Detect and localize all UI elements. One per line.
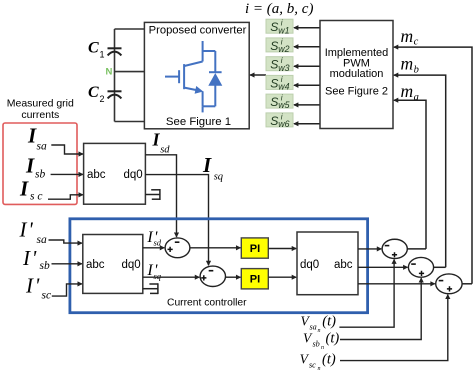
terminator symbol on U2 zero output bbox=[145, 189, 160, 200]
svg-text:m: m bbox=[401, 81, 414, 101]
transistor Q1 (IGBT, blue) bbox=[165, 41, 215, 112]
wire: m_b from sum B bbox=[394, 75, 446, 267]
svg-text:sq: sq bbox=[154, 271, 162, 281]
svg-text:sd: sd bbox=[154, 238, 162, 248]
svg-text:b: b bbox=[414, 64, 419, 75]
wire: PI1 to dq0/abc bbox=[268, 248, 296, 250]
wire: DC-link vertical bus bbox=[114, 29, 116, 122]
red box around measured currents bbox=[3, 123, 77, 204]
wire: I_sc to abc/dq0 bbox=[48, 195, 83, 199]
svg-text:sb: sb bbox=[313, 340, 320, 349]
svg-text:sc: sc bbox=[42, 290, 52, 302]
node Sw4 (switching signal S^i_w4) bbox=[266, 75, 293, 92]
svg-text:I: I bbox=[27, 124, 37, 148]
svg-text:sc: sc bbox=[309, 361, 316, 370]
svg-text:n: n bbox=[321, 345, 324, 351]
svg-text:N: N bbox=[106, 67, 113, 78]
svg-text:currents: currents bbox=[21, 109, 59, 121]
terminator symbol on U3 zero output bbox=[143, 283, 158, 294]
current controller box (blue) bbox=[70, 219, 368, 313]
diode D1 (freewheeling, blue) bbox=[209, 51, 222, 106]
svg-text:S: S bbox=[270, 58, 278, 72]
capacitor C2 bbox=[108, 91, 122, 98]
svg-text:S: S bbox=[270, 39, 278, 53]
wire: I'_sq to sum2 bbox=[143, 276, 199, 278]
wire: sumC output up to m_c bbox=[462, 283, 472, 285]
summing node sumA bbox=[382, 239, 407, 258]
wire: sumB output up to m_b bbox=[434, 266, 446, 268]
wire: V_sc to sumC bbox=[340, 295, 448, 361]
capacitor C1 bbox=[108, 48, 122, 55]
svg-text:See Figure 2: See Figure 2 bbox=[325, 85, 388, 97]
svg-text:abc: abc bbox=[87, 169, 106, 181]
node Sw6 (switching signal S^i_w6) bbox=[266, 112, 293, 129]
wire: gating bus into converter bbox=[250, 74, 266, 76]
svg-text:(t): (t) bbox=[322, 313, 336, 329]
node Sw1 (switching signal S^i_w1) bbox=[266, 19, 293, 36]
wire: PWM to Sw2 bbox=[294, 46, 320, 48]
wire: m_a from sum A bbox=[394, 100, 426, 249]
abc/dq0 block U3 (reference currents transform) bbox=[83, 235, 143, 294]
svg-text:i = (a, b, c): i = (a, b, c) bbox=[245, 1, 313, 17]
svg-text:sb: sb bbox=[35, 169, 45, 181]
svg-text:n: n bbox=[318, 366, 321, 372]
svg-text:C: C bbox=[88, 39, 99, 56]
wire: bottom DC rail to converter bbox=[115, 121, 145, 123]
svg-text:Current controller: Current controller bbox=[167, 297, 247, 308]
wire: I'_sa to abc/dq0 bbox=[49, 240, 82, 243]
PI controller PI2 bbox=[241, 269, 268, 289]
summing node sum1 (d-axis) bbox=[165, 238, 190, 258]
svg-text:I: I bbox=[152, 129, 161, 149]
wire: I'_sb to abc/dq0 bbox=[52, 263, 82, 265]
svg-text:w2: w2 bbox=[278, 44, 289, 54]
svg-text:sq: sq bbox=[214, 171, 223, 182]
svg-text:I: I bbox=[25, 153, 35, 177]
wire: neutral mid rail to converter bbox=[115, 71, 145, 73]
svg-text:I ': I ' bbox=[19, 218, 34, 242]
wire: I_sq to sum2 bbox=[145, 175, 208, 266]
svg-text:PI: PI bbox=[250, 274, 260, 286]
wire: I_sb to abc/dq0 bbox=[51, 173, 83, 175]
svg-text:PI: PI bbox=[250, 243, 260, 255]
wire: top DC rail to converter bbox=[115, 28, 145, 30]
svg-text:abc: abc bbox=[86, 259, 105, 271]
svg-text:sd: sd bbox=[160, 145, 170, 156]
wire: PWM to Sw4 bbox=[294, 84, 320, 86]
svg-text:See Figure 1: See Figure 1 bbox=[166, 116, 231, 128]
svg-text:sb: sb bbox=[40, 260, 50, 272]
node Sw5 (switching signal S^i_w5) bbox=[266, 94, 293, 111]
svg-text:1: 1 bbox=[100, 49, 105, 59]
svg-text:2: 2 bbox=[100, 94, 105, 104]
svg-text:s c: s c bbox=[30, 191, 42, 203]
svg-text:m: m bbox=[401, 53, 414, 73]
wire: PWM to Sw1 bbox=[294, 27, 320, 29]
summing node sumB bbox=[408, 257, 433, 277]
wire: U4 c-output to sum C bbox=[358, 283, 435, 285]
svg-text:w3: w3 bbox=[278, 63, 289, 73]
dq0/abc block U4 (inverse transform) bbox=[297, 232, 358, 295]
summing node sumC bbox=[436, 274, 462, 294]
svg-text:S: S bbox=[270, 114, 278, 128]
wire: U4 a-output to sum A bbox=[358, 248, 381, 250]
wire: PWM to Sw6 bbox=[294, 123, 320, 125]
summing node sum2 (q-axis) bbox=[200, 266, 225, 286]
svg-text:w4: w4 bbox=[278, 82, 289, 92]
svg-text:Measured grid: Measured grid bbox=[7, 98, 74, 110]
svg-text:S: S bbox=[270, 95, 278, 109]
svg-text:I: I bbox=[19, 177, 29, 201]
svg-text:(t): (t) bbox=[322, 351, 336, 367]
svg-text:I ': I ' bbox=[22, 246, 37, 270]
svg-text:I: I bbox=[202, 153, 212, 177]
emitter arrow of Q1 bbox=[184, 88, 201, 91]
wire: V_sb to sumB bbox=[340, 278, 421, 339]
svg-text:dq0: dq0 bbox=[300, 259, 319, 271]
svg-text:w5: w5 bbox=[278, 100, 289, 110]
wire: sum1 to PI1 bbox=[190, 247, 241, 249]
wire: PWM to Sw3 bbox=[294, 65, 320, 67]
svg-text:a: a bbox=[414, 92, 419, 103]
svg-text:sa: sa bbox=[37, 141, 47, 153]
wire: I_sd to sum1 bbox=[145, 155, 176, 237]
svg-text:(t): (t) bbox=[326, 330, 340, 346]
svg-text:modulation: modulation bbox=[330, 68, 384, 80]
svg-text:Proposed converter: Proposed converter bbox=[149, 24, 247, 36]
node Sw3 (switching signal S^i_w3) bbox=[266, 56, 293, 73]
wire: V_sa to sumA bbox=[339, 260, 394, 328]
svg-text:C: C bbox=[88, 84, 99, 101]
svg-text:n: n bbox=[318, 328, 321, 334]
wire: PI2 to dq0/abc bbox=[268, 276, 296, 278]
svg-text:m: m bbox=[401, 26, 414, 46]
wire: I_sa to abc/dq0 bbox=[51, 145, 83, 154]
node Sw2 (switching signal S^i_w2) bbox=[266, 37, 293, 54]
svg-text:sa: sa bbox=[37, 234, 47, 246]
PI controller PI1 bbox=[241, 238, 268, 258]
svg-text:S: S bbox=[270, 76, 278, 90]
svg-text:S: S bbox=[270, 20, 278, 34]
wire: I'_sc to abc/dq0 bbox=[52, 284, 82, 296]
svg-text:dq0: dq0 bbox=[124, 169, 143, 181]
wire: I'_sd to sum1 bbox=[143, 247, 164, 249]
svg-text:c: c bbox=[414, 37, 419, 48]
svg-text:dq0: dq0 bbox=[122, 259, 141, 271]
abc/dq0 block U2 (measured currents transform) bbox=[84, 143, 146, 204]
svg-text:w1: w1 bbox=[278, 25, 289, 35]
PWM block (Implemented PWM modulation) bbox=[320, 21, 393, 129]
converter block (Proposed converter) bbox=[144, 22, 249, 128]
svg-text:abc: abc bbox=[334, 259, 353, 271]
wire: sumA output up to m_a bbox=[407, 248, 426, 250]
wire: PWM to Sw5 bbox=[294, 104, 320, 106]
svg-text:I ': I ' bbox=[25, 274, 40, 298]
wire: sum2 to PI2 bbox=[226, 276, 241, 278]
wire: m_c from sum C bbox=[394, 47, 472, 284]
wire: U4 b-output to sum B bbox=[358, 266, 408, 268]
svg-text:w6: w6 bbox=[278, 119, 289, 129]
